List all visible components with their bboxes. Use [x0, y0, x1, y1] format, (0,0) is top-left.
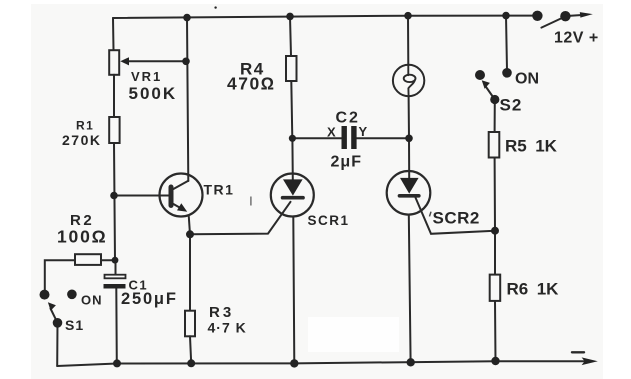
svg-text:S1: S1	[65, 317, 84, 333]
svg-text:S2: S2	[500, 96, 523, 115]
svg-text:SCR2: SCR2	[433, 209, 480, 228]
svg-text:R5 1K: R5 1K	[505, 137, 558, 156]
svg-text:R1: R1	[76, 119, 94, 133]
svg-text:Y: Y	[359, 124, 368, 139]
svg-text:C2: C2	[336, 110, 360, 127]
svg-text:ON: ON	[515, 71, 539, 88]
svg-text:ON: ON	[81, 293, 103, 308]
svg-text:470Ω: 470Ω	[227, 74, 276, 94]
svg-text:TR1: TR1	[204, 182, 235, 198]
svg-text:VR1: VR1	[131, 69, 162, 84]
svg-text:250μF: 250μF	[121, 290, 178, 308]
svg-text:4·7 K: 4·7 K	[208, 320, 247, 336]
svg-text:R6 1K: R6 1K	[507, 280, 560, 299]
svg-text:2μF: 2μF	[331, 154, 362, 171]
svg-text:100Ω: 100Ω	[57, 227, 107, 247]
svg-text:270K: 270K	[62, 132, 101, 148]
svg-text:SCR1: SCR1	[308, 213, 350, 228]
svg-text:X: X	[327, 125, 336, 140]
svg-text:R3: R3	[209, 304, 234, 321]
svg-text:12V +: 12V +	[554, 30, 599, 47]
svg-text:500K: 500K	[129, 84, 178, 103]
